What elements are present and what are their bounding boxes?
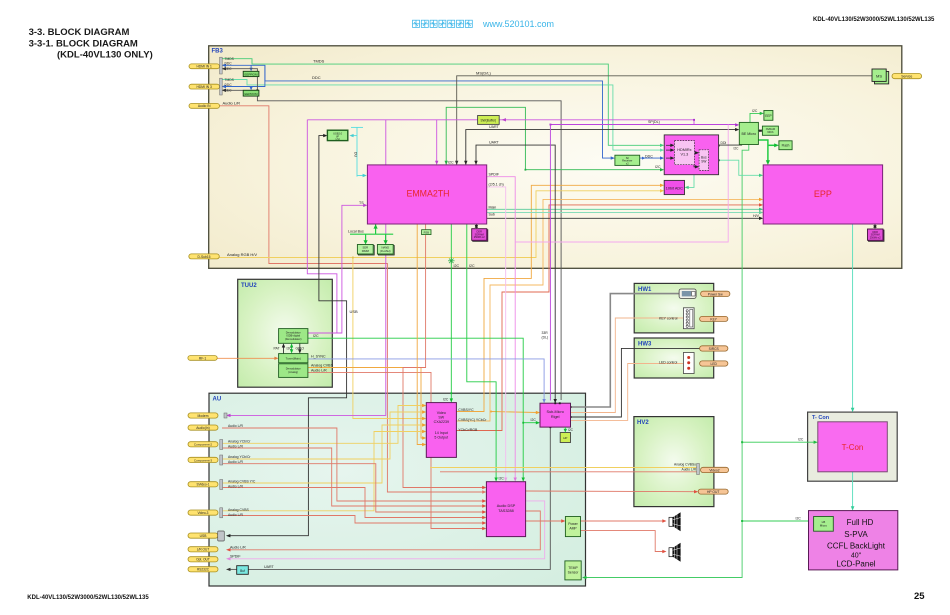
chip 10bit ADC [664,180,684,194]
wire violet A down to TUU2 [307,120,337,333]
board T-Con [808,412,898,481]
wire cyan DU bus [351,127,365,176]
wire VideoSW out red to EPP [456,205,760,431]
svg-text:HV2: HV2 [637,420,649,426]
chip HDMIRx [664,135,718,175]
svg-text:TEMP: TEMP [568,566,578,570]
svg-text:H_SYNC: H_SYNC [311,355,326,359]
chip EEP (BE) [764,111,773,121]
svg-text:Sensor: Sensor [568,571,580,575]
svg-text:Audio L/R: Audio L/R [228,424,243,428]
wire VideoSW out orange 2 to EPP [456,199,760,421]
wire LVDS teal T-Con to LCD [852,472,854,507]
svg-text:Flash: Flash [782,143,790,147]
svg-text:(Demodulator): (Demodulator) [285,337,302,341]
svg-text:Analog CVBSo: Analog CVBSo [674,463,696,467]
svg-text:CEC: CEC [225,88,233,92]
svg-text:Audio L/R: Audio L/R [682,467,697,471]
svg-text:SVideo-1: SVideo-1 [196,483,209,487]
connector RF-1 [188,356,217,361]
connector Component-3 [188,457,218,462]
svg-text:EPP: EPP [814,189,832,199]
svg-text:TMDS: TMDS [225,78,235,82]
svg-text:SW(Buffer): SW(Buffer) [481,119,497,123]
connector Video2 [701,467,729,472]
svg-text:HDMI IN 3: HDMI IN 3 [197,85,213,89]
chip DDR1 [473,230,488,242]
wire AU comp3 audio red to DSP [222,464,484,512]
svg-text:I2C: I2C [531,418,537,422]
chip SiI receiver [615,155,640,165]
connector Power Sw [701,291,730,296]
chip T-Con inner [818,422,888,472]
wire AU svideo audio red to DSP [222,488,484,518]
wire BE Micro green main vertical [584,145,749,578]
wire DDC drop to EEPROM1 [250,65,252,68]
wire BE Micro to EEP green [750,113,761,122]
board TUU2 [238,279,333,387]
connector Modem [188,413,218,418]
svg-text:Audio(In): Audio(In) [196,426,209,430]
wire AU video3 yellow to VideoSW [222,432,423,511]
svg-text:D-Sub15: D-Sub15 [197,255,210,259]
wire green branch to T-Con I2C [742,441,814,443]
wire DDC SiI to HDMIRx blue [640,157,661,159]
connector HP OUT [698,489,728,494]
svg-text:Rigel: Rigel [551,415,560,419]
svg-text:DIMM: DIMM [362,249,370,253]
svg-text:DDI: DDI [721,141,727,145]
chip SW(Buffer) [478,116,500,125]
svg-text:Analog CVBS Y/C: Analog CVBS Y/C [228,479,256,483]
svg-text:I2C: I2C [752,109,758,113]
svg-text:SIRCS: SIRCS [709,347,720,351]
svg-text:GPIO: GPIO [296,347,305,351]
connector SIRCS [700,346,728,351]
chip TEMP Sensor [565,561,581,580]
svg-text:I2C: I2C [454,264,460,268]
svg-text:3-3. BLOCK DIAGRAM: 3-3. BLOCK DIAGRAM [29,27,130,38]
svg-text:HP: HP [563,436,567,440]
wire LVDS Main green [487,208,760,210]
svg-text:256Mb x2: 256Mb x2 [870,237,882,240]
chip Sub-Micro [540,403,571,427]
chip SDR DIMM [358,246,374,256]
wire AU svideo yellow to VideoSW [222,425,423,483]
svg-text:Audio L/R: Audio L/R [311,369,327,373]
chip MS [875,72,889,84]
svg-text:CVBS/YC: CVBS/YC [458,408,474,412]
svg-text:Analog RGB H/V: Analog RGB H/V [227,252,257,257]
svg-text:SP(DL): SP(DL) [648,120,660,124]
wire EMMA audio red to DSP [403,224,484,488]
chip Audio DSP [486,482,525,537]
svg-text:Power Sw: Power Sw [708,292,723,296]
chip LB Micro [814,517,834,532]
connector Video-3 [188,510,218,515]
wire EPP to DDR2 black arrow [874,224,876,226]
svg-text:H/V: H/V [753,214,760,218]
svg-text:EEP: EEP [765,114,771,118]
svg-text:CEC: CEC [225,67,233,71]
svg-text:Video: Video [437,411,446,415]
arrows into HDMIRx inner [666,144,672,146]
svg-text:TAS3288: TAS3288 [498,509,514,513]
wire yellow branch to Video SW [353,258,423,419]
chip EPP [763,165,882,224]
connector KEY [700,316,728,321]
chip Flash [779,141,792,150]
wire PowerAMP to speaker2 red [581,531,664,552]
svg-text:5 Output: 5 Output [434,436,448,440]
svg-text:Analog YCb/Cr: Analog YCb/Cr [228,455,251,459]
chip EMMA2TH [367,165,486,224]
wire SubMicro to LED salmon [571,364,684,421]
LED connector icon [683,353,694,374]
svg-text:I2C: I2C [655,165,661,169]
wire orange into SubMicro [491,412,537,413]
svg-text:Component-2: Component-2 [194,443,213,447]
svg-text:Modem: Modem [198,414,209,418]
connector SVideo-1 [188,482,218,487]
connector Opt. OUT [188,557,218,562]
svg-text:Audio IN: Audio IN [198,104,211,108]
connector Audio In [188,425,218,430]
svg-text:T-Con: T-Con [842,443,864,452]
wire green I2C star marker [448,258,455,265]
svg-text:256Mb x2: 256Mb x2 [474,236,486,239]
wire AU to HV2 video yellow [430,467,697,469]
wire green branch to Flash [768,144,776,146]
svg-text:RF-1: RF-1 [199,356,206,360]
wire HDMIRx BusSW teal to EPP [719,160,760,175]
KEY connector icon [683,308,694,329]
svg-text:KDL-40VL130/52W3000/52WL130/52: KDL-40VL130/52W3000/52WL130/52WL135 [813,17,935,23]
svg-text:40": 40" [851,553,862,560]
svg-text:3-3-1. BLOCK DIAGRAM: 3-3-1. BLOCK DIAGRAM [29,39,138,50]
wire LVDS Sub green [487,212,760,214]
wire I2C green EMMA to AudioDSP [467,224,496,479]
svg-text:I2C: I2C [734,147,740,151]
speaker 1 [669,517,673,526]
svg-text:(KDL-40VL130 ONLY): (KDL-40VL130 ONLY) [57,50,153,61]
wire SubMicro to KEY salmon [571,318,684,413]
wire EMMA to DDR black arrow [475,224,477,226]
wire TMDS HDMI3 teal [222,80,662,151]
svg-text:Micro: Micro [820,524,828,528]
svg-text:YCbCr/RGB: YCbCr/RGB [458,428,478,432]
wire VideoSW out orange 1 to 10bitADC [456,185,661,411]
wire DSP to HP OUT red [526,490,695,493]
svg-text:MS: MS [876,74,882,79]
svg-text:UART: UART [264,565,275,569]
chip Video SW [426,403,456,458]
connector D-Sub15 [189,254,220,259]
svg-text:Component-3: Component-3 [194,458,213,462]
svg-text:Audio L/R: Audio L/R [228,513,243,517]
chip NVRAM [762,126,778,135]
svg-text:Analog CVBS: Analog CVBS [228,508,249,512]
svg-text:Buf: Buf [240,569,245,573]
svg-text:I2C: I2C [313,334,319,338]
svg-text:Tuner(Main): Tuner(Main) [286,357,301,361]
svg-text:UART: UART [489,125,500,129]
wire I2C green EMMA to VideoSW [450,224,452,399]
svg-text:CVBS(YC) YCbCr: CVBS(YC) YCbCr [458,418,487,422]
wire green branch to LB Micro I2C [742,520,810,522]
svg-text:Audio L/R: Audio L/R [228,460,243,464]
wire violet SW(Buffer) bus [307,120,694,125]
svg-text:MS(D/L): MS(D/L) [476,70,492,75]
svg-text:I2C: I2C [287,347,293,351]
svg-text:EEPROM: EEPROM [244,72,258,76]
wire TMDS HDMI1 green [222,59,662,146]
wire DSP to Opt OUT pink [228,501,545,559]
svg-text:Power: Power [568,522,578,526]
wire TUU2 I2C green arrow [291,346,293,352]
svg-text:Demodulator: Demodulator [286,367,301,371]
wire TUU2 PAT black arrow [283,346,285,354]
chip BE Micro [739,122,758,144]
chip Demodulator analog [279,364,308,378]
connector Component-2 [188,442,218,447]
svg-text:EMMA2TH: EMMA2TH [406,189,449,199]
svg-text:HP OUT: HP OUT [707,490,719,494]
svg-text:KEY: KEY [710,317,717,321]
svg-text:KEY control: KEY control [659,316,678,320]
svg-text:TMDS: TMDS [225,57,235,61]
wire EMMA local bus green [375,224,377,234]
svg-text:(Analog): (Analog) [288,370,298,374]
chip EEPROM2 [243,90,259,96]
wire SubMicro to HW1 power grey [571,294,680,407]
svg-text:Video-3: Video-3 [198,511,209,515]
svg-text:CXA2239: CXA2239 [434,420,449,424]
svg-text:25: 25 [914,591,925,602]
svg-text:LCD-Panel: LCD-Panel [836,560,875,569]
chip DDR2 [869,230,885,241]
wire 2/5.1ch pink EMMA to DSP [487,187,506,479]
svg-text:Audio L/R: Audio L/R [228,484,243,488]
svg-text:Audio DSP: Audio DSP [497,504,516,508]
wire LVDS teal EPP to T-Con [852,224,854,409]
wire DSP to PowerAMP red [526,520,563,522]
svg-text:Opt. OUT: Opt. OUT [196,558,210,562]
connector Audio IN [189,104,220,109]
svg-text:64Kb: 64Kb [767,130,774,134]
wire USB black [228,136,347,536]
wire AU comp3 video yellow to VideoSW [222,412,423,459]
wire AU video3 audio red to DSP [222,516,484,524]
wire SPDIF violet EMMA to DSP [487,177,516,479]
wire pink loop EPP side [515,125,728,243]
svg-text:TUU2: TUU2 [241,283,257,289]
svg-text:I2C: I2C [469,264,475,268]
svg-text:RS232C: RS232C [197,568,210,572]
connector LED [700,361,728,366]
wire UART1 black EMMA to BE Micro [466,130,736,165]
chip Tuner [279,354,308,363]
wire AU comp2 video yellow to VideoSW [222,406,423,444]
svg-text:LSI: LSI [336,137,340,141]
wire I2C green TUU2 to SubMicro and DSP [308,338,523,478]
board FB3 [209,46,902,268]
svg-text:I2C: I2C [448,160,454,164]
svg-text:Local Bus: Local Bus [348,230,364,234]
chip Power AMP [565,517,580,537]
svg-text:S-PVA: S-PVA [844,530,868,539]
svg-text:(FLASH): (FLASH) [380,249,391,253]
wire CEC grey bus [224,69,562,400]
svg-text:USB: USB [350,309,359,314]
wire violet vertical to SubMicro [549,125,551,401]
wire green branch to EPP top [758,140,768,161]
svg-text:I2C: I2C [568,428,574,432]
wire TUU2 GPIO black arrow [299,343,301,351]
svg-text:FB3: FB3 [212,49,224,55]
chip Buf RS232 [237,566,249,575]
svg-text:I2C: I2C [443,398,449,402]
connector RS232C [188,567,218,572]
wire I2C green EMMA to HDMIRx [446,107,661,169]
svg-text:Service: Service [901,75,912,79]
svg-text:EEPROM: EEPROM [244,92,258,96]
svg-text:TS: TS [359,201,364,205]
svg-text:LED control: LED control [659,361,678,365]
board AU [209,393,586,586]
svg-text:DDC: DDC [312,75,321,80]
svg-text:TMDS: TMDS [313,58,325,63]
wire AU comp2 audio red to DSP [222,448,484,506]
svg-text:Audio L/R: Audio L/R [230,545,246,549]
svg-text:UART: UART [489,141,500,145]
svg-text:BE Micro: BE Micro [742,132,757,136]
connector L/R OUT [188,547,218,552]
wire UART2 black EMMA to SubMicro [476,145,555,400]
wire HDMIRx DDI black [719,144,743,146]
svg-text:SPDIF: SPDIF [489,172,500,176]
svg-text:14 Input: 14 Input [435,431,448,435]
svg-text:SW: SW [438,416,444,420]
wire AU audioin red to DSP [222,428,484,501]
wire DDC blue [224,65,613,158]
wire Audio IN red to DSP [219,106,484,492]
connector Service [892,74,922,79]
svg-text:33R: 33R [542,331,549,335]
svg-text:AMP: AMP [569,527,577,531]
svg-text:DDC: DDC [225,83,233,87]
wire EMMA orange to VideoSW [417,224,423,445]
svg-text:I2C: I2C [499,477,505,481]
svg-text:Full HD: Full HD [847,518,874,527]
wire H_SYNC blue TUU2 to SubMicro [308,359,544,400]
svg-text:DU: DU [354,152,358,157]
svg-text:CCFL BackLight: CCFL BackLight [827,542,886,551]
wire DSP to LR OUT red [228,511,540,550]
svg-text:AU: AU [213,397,222,403]
svg-text:T- Con: T- Con [812,415,830,421]
svg-text:L/R OUT: L/R OUT [197,548,210,552]
chip USB2.0 [327,130,347,140]
wire MS(D/L) grey [457,76,872,165]
svg-text:HDMI IN 1: HDMI IN 1 [197,65,213,69]
speaker 2 [669,548,673,557]
svg-text:HW1: HW1 [638,287,652,293]
wire HDMIRx bottom green to ADC [687,175,694,188]
wire violet to EMMA top [436,120,438,162]
svg-text:PAT: PAT [274,347,280,351]
svg-text:SPDIF: SPDIF [230,554,241,558]
chip NAND flash [378,246,394,256]
svg-text:Video2: Video2 [709,468,719,472]
chip OSC tiny [422,230,431,235]
wire violet to Modem [228,120,386,416]
chip EEPROM1 [243,71,259,76]
wire RS232C UART grey [228,568,237,570]
svg-text:(2/5.1 ch): (2/5.1 ch) [489,183,504,187]
svg-text:RSB: RSB [424,231,430,235]
wire Analog CVBS orange TUU2 to VideoSW [308,368,423,439]
wire PowerAMP to speaker1 red [581,520,664,522]
svg-text:Audio L/R: Audio L/R [223,101,241,106]
svg-text:Analog YCb/Cr: Analog YCb/Cr [228,439,251,443]
wire SubMicro to SIRCS black [571,348,700,417]
wire AU to HV2 audio red [440,471,697,473]
svg-text:(DL): (DL) [542,336,549,340]
board HV2 [634,417,714,507]
svg-text:HW3: HW3 [638,342,652,348]
svg-text:Main: Main [489,205,497,209]
svg-text:Analog CVBS: Analog CVBS [311,363,334,367]
board HW3 [634,338,714,378]
svg-text:KDL-40VL130/52W3000/52WL130/52: KDL-40VL130/52W3000/52WL130/52WL135 [27,595,149,601]
wire Audio L/R red TUU2 to DSP [308,372,484,528]
power switch icon [679,289,696,298]
wire TS violet TUU2 to EMMA [308,205,364,333]
wire H/V black EMMA to EPP [487,217,760,219]
chip Demodulator digital [279,329,308,344]
svg-text:HDMIRx: HDMIRx [677,148,691,152]
svg-text:10bit ADC: 10bit ADC [666,187,683,191]
chip EEP (sub) [560,433,570,443]
svg-text:SW: SW [701,159,706,163]
svg-text:www.520101.com: www.520101.com [482,19,554,29]
svg-text:I2C: I2C [798,438,804,442]
svg-text:V1.3: V1.3 [680,153,688,157]
svg-text:LED: LED [710,362,717,366]
svg-text:Audio L/R: Audio L/R [228,444,243,448]
wire RF-1 orange [217,357,275,359]
svg-text:I2C: I2C [796,517,802,521]
svg-text:DDC: DDC [225,62,233,66]
svg-text:Sub: Sub [489,213,495,217]
chip LCD panel [809,511,898,570]
board HW1 [634,283,714,333]
wire DDC drop to EEPROM2 [250,87,252,88]
connector HDMI IN 3 [189,84,220,89]
connector USB [188,533,218,538]
wire Analog RGB yellow D-Sub to ADC [219,191,661,258]
wire BE Micro to NVRAM black [758,130,762,132]
svg-text:USB: USB [200,534,208,538]
svg-text:Sub-Micro: Sub-Micro [547,410,564,414]
connector HDMI IN 1 [189,64,220,69]
wire SP(DL) violet to BE Micro [550,124,736,126]
